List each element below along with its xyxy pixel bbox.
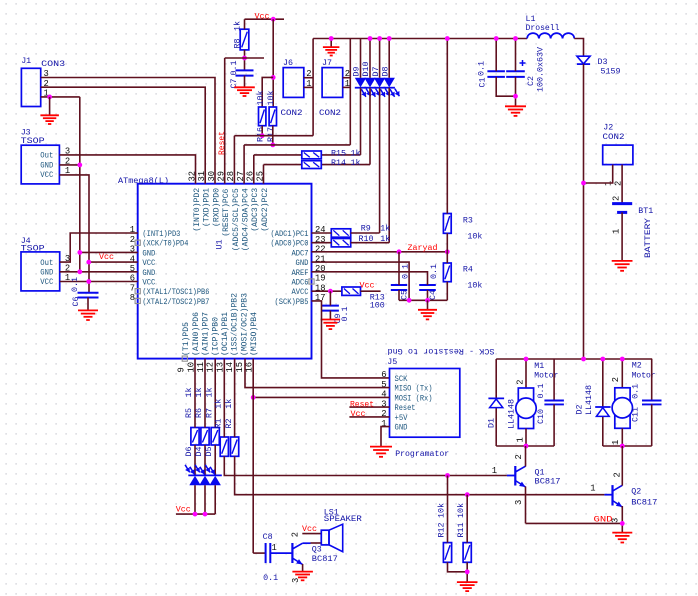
svg-text:0.1: 0.1 bbox=[536, 384, 546, 399]
svg-text:R11: R11 bbox=[456, 523, 466, 538]
wire R9 row: U1 pin24 to D7 column bbox=[312, 232, 332, 234]
resistor R17 body bbox=[269, 107, 276, 126]
svg-text:10k: 10k bbox=[467, 280, 482, 290]
junction bus ground bbox=[329, 36, 334, 41]
svg-text:100.0x63V: 100.0x63V bbox=[536, 46, 546, 92]
capacitor C2 electrolytic bbox=[506, 70, 525, 72]
wire R4 stubs bbox=[446, 252, 448, 263]
svg-text:D2: D2 bbox=[575, 405, 585, 415]
ground symbol BT1 bbox=[612, 261, 633, 271]
junction bus / C2 bbox=[513, 36, 518, 41]
wire D10 top stub bbox=[369, 39, 371, 78]
wire C1 top stem bbox=[495, 39, 497, 72]
wire D3 cathode down to J2 row and motors bbox=[583, 64, 585, 359]
ground symbol top bus bbox=[323, 47, 340, 55]
capacitor C1 bbox=[487, 70, 505, 72]
svg-text:C10: C10 bbox=[536, 409, 546, 424]
svg-text:2: 2 bbox=[516, 380, 526, 385]
svg-text:VCC: VCC bbox=[40, 170, 53, 180]
wire Vcc rail top bbox=[245, 18, 285, 20]
svg-text:D1: D1 bbox=[487, 418, 497, 428]
wire R16 bottom to SCL row bbox=[261, 126, 263, 136]
wire J6 pin stubs bbox=[304, 77, 313, 79]
svg-text:(SCK)PB5: (SCK)PB5 bbox=[275, 297, 309, 307]
wire R3 bottom to Zaryad bbox=[446, 233, 448, 252]
wire U1 pin25 column bbox=[263, 165, 265, 184]
battery BT1 bbox=[612, 202, 632, 205]
junction D4 / Vcc row bbox=[203, 512, 208, 517]
wire R6 to LED bbox=[204, 445, 206, 475]
transistor Q2 BC817 bbox=[611, 485, 613, 505]
svg-text:0.1: 0.1 bbox=[70, 277, 80, 292]
junction supply / D3 rail bbox=[581, 357, 586, 362]
svg-text:AREF: AREF bbox=[292, 268, 309, 278]
wire M1 bottom row bbox=[496, 445, 554, 447]
svg-text:1k: 1k bbox=[194, 388, 204, 398]
wire U1 pin21 GND to analog gnd row bbox=[312, 262, 410, 300]
svg-text:14: 14 bbox=[225, 362, 235, 373]
connector J6 CON2 body bbox=[283, 68, 304, 98]
svg-text:J5: J5 bbox=[387, 357, 397, 367]
resistor R13 body bbox=[342, 287, 361, 295]
svg-text:(XTAL1/TOSC1)PB6: (XTAL1/TOSC1)PB6 bbox=[142, 287, 209, 297]
svg-text:D5: D5 bbox=[204, 447, 214, 457]
svg-text:Out: Out bbox=[40, 151, 53, 161]
svg-text:(MISO)PB4: (MISO)PB4 bbox=[249, 312, 259, 356]
svg-text:(ADC2)PC2: (ADC2)PC2 bbox=[260, 188, 270, 232]
svg-text:5159: 5159 bbox=[601, 67, 621, 77]
connector J5 body bbox=[390, 369, 460, 438]
resistor R9 body bbox=[331, 229, 350, 237]
svg-text:Vcc: Vcc bbox=[99, 252, 114, 262]
svg-text:1: 1 bbox=[272, 543, 277, 553]
svg-text:(RXD)PD0: (RXD)PD0 bbox=[211, 188, 221, 227]
wire R16 top jog bbox=[262, 77, 273, 107]
wire M1 top stub bbox=[525, 359, 527, 388]
wire Q1 collector from M1 bbox=[525, 446, 527, 467]
svg-text:0.1: 0.1 bbox=[229, 61, 239, 76]
wire C8 feed from U1 pin16 column bbox=[253, 552, 265, 554]
resistor R14 body bbox=[302, 161, 322, 169]
svg-text:BC817: BC817 bbox=[312, 554, 338, 564]
C2 plus sign bbox=[520, 62, 526, 64]
resistor R7 body bbox=[211, 428, 219, 446]
wire U1 column to R2 bbox=[234, 359, 236, 437]
wire M1 bottom stub bbox=[525, 429, 527, 447]
op-amp U1 ATmega8(L) IC body bbox=[138, 184, 312, 359]
svg-text:ADC7: ADC7 bbox=[292, 248, 309, 258]
svg-text:J6: J6 bbox=[283, 58, 293, 68]
ground symbol C2 bbox=[505, 106, 526, 116]
svg-text:0.1: 0.1 bbox=[340, 307, 350, 322]
junction J4.1 / VCC rail / U1 pin6 bbox=[86, 279, 91, 284]
junction emitter row / ground bbox=[620, 521, 625, 526]
svg-text:2: 2 bbox=[291, 532, 301, 537]
svg-text:1: 1 bbox=[612, 229, 622, 234]
svg-text:AVCC: AVCC bbox=[292, 287, 309, 297]
junction D3 rail / J2.1 bbox=[581, 181, 586, 186]
svg-text:D4: D4 bbox=[194, 447, 204, 457]
LED cathode bar D6/D4/D5 bbox=[188, 474, 222, 476]
wire C9 top stem bbox=[329, 291, 331, 305]
svg-text:Vcc: Vcc bbox=[302, 524, 317, 534]
wire J4.2 GND to U1 pin5 row bbox=[60, 271, 138, 273]
svg-text:9: 9 bbox=[177, 367, 187, 372]
svg-text:7: 7 bbox=[130, 283, 135, 293]
svg-text:BATTERY: BATTERY bbox=[643, 217, 653, 258]
U1 unconnected pin squares (pins 2,7,8,9,19) bbox=[135, 240, 140, 245]
junction Q1 base / R12 bbox=[445, 473, 450, 478]
svg-text:2: 2 bbox=[514, 454, 524, 459]
svg-text:3: 3 bbox=[514, 500, 524, 505]
connector J7 CON2 body bbox=[322, 68, 343, 98]
wire C1 bottom stem bbox=[496, 77, 515, 96]
wire J1.1 GND stub bbox=[41, 96, 80, 98]
svg-text:1k: 1k bbox=[380, 224, 390, 234]
wire U1 pin26 column bbox=[253, 155, 255, 184]
svg-text:(ADC4/SDA)PC4: (ADC4/SDA)PC4 bbox=[241, 188, 251, 251]
svg-text:CON3: CON3 bbox=[41, 59, 65, 69]
resistor R6 body bbox=[201, 428, 209, 446]
wire R11 bottom stem bbox=[466, 562, 468, 582]
wire MISO row: U1 pin15 to J5.5 bbox=[245, 359, 390, 388]
svg-text:0.1: 0.1 bbox=[477, 61, 487, 76]
svg-text:TSOP: TSOP bbox=[21, 136, 45, 146]
wire Q3 emitter to ground bbox=[302, 564, 304, 572]
svg-text:0.1: 0.1 bbox=[429, 264, 439, 279]
svg-text:M1: M1 bbox=[534, 361, 544, 371]
svg-text:8: 8 bbox=[130, 293, 135, 303]
wire D7 top stub bbox=[379, 39, 381, 78]
wire Q3 collector to speaker pin1 bbox=[303, 542, 311, 544]
wire Reset column to U1 pin29 bbox=[224, 58, 226, 184]
junction bus / D10 bbox=[368, 36, 373, 41]
svg-text:R9: R9 bbox=[361, 224, 371, 234]
wire motor supply row bbox=[496, 358, 652, 360]
svg-text:SPEAKER: SPEAKER bbox=[324, 514, 362, 524]
svg-text:2: 2 bbox=[130, 235, 135, 245]
svg-text:R5: R5 bbox=[184, 408, 194, 418]
svg-text:(AIN0)PD6: (AIN0)PD6 bbox=[191, 312, 201, 356]
wire J1.2 to U1 pin31 (TXD) bbox=[41, 87, 206, 184]
svg-text:(ADC3)PC3: (ADC3)PC3 bbox=[250, 188, 260, 232]
wire R8 top stub bbox=[244, 19, 246, 29]
ground symbol Q3 bbox=[292, 572, 313, 581]
wire J3.2 GND stub to x=79.8 bbox=[59, 164, 79, 166]
wire J4.1 VCC to U1 pin6 row bbox=[60, 281, 138, 283]
svg-text:(MOSI/OC2)PB3: (MOSI/OC2)PB3 bbox=[239, 293, 249, 356]
wire J3.1 VCC stub and vertical x=89 bbox=[59, 175, 89, 292]
svg-text:C11: C11 bbox=[631, 407, 641, 422]
svg-text:Q3: Q3 bbox=[312, 545, 322, 555]
svg-text:CON2: CON2 bbox=[319, 108, 341, 118]
svg-text:10k: 10k bbox=[266, 91, 276, 106]
svg-text:1: 1 bbox=[611, 440, 621, 445]
svg-text:R1: R1 bbox=[214, 419, 224, 429]
svg-text:BC817: BC817 bbox=[535, 477, 561, 487]
junction J3.2 on GND rail bbox=[77, 163, 82, 168]
wire J7 riser from bus down to SDA row bbox=[349, 39, 351, 145]
wire R1 bottom to Q1 base row bbox=[224, 456, 507, 475]
junction R16 / SCL row bbox=[260, 133, 265, 138]
junction R16 top branch bbox=[271, 75, 276, 80]
svg-text:GND: GND bbox=[594, 515, 613, 525]
wire D2 branch bbox=[602, 359, 604, 446]
svg-text:VCC: VCC bbox=[142, 258, 155, 268]
ground symbol J5 bbox=[370, 447, 392, 457]
capacitor C7 bbox=[236, 69, 254, 71]
resistor R1 body bbox=[220, 437, 228, 456]
svg-text:(INT0)PD2: (INT0)PD2 bbox=[192, 188, 202, 232]
svg-text:Zaryad: Zaryad bbox=[408, 243, 438, 253]
resistor R2 body bbox=[231, 437, 239, 456]
capacitor C9 bbox=[322, 305, 339, 307]
wire U1 pin17 SCK down to J5 bbox=[312, 301, 390, 378]
svg-text:1k: 1k bbox=[224, 399, 234, 409]
wire SCL row: U1 pin28 to J6 bbox=[234, 135, 313, 137]
wire M2 bottom row bbox=[603, 445, 652, 447]
svg-text:Programator: Programator bbox=[395, 449, 449, 459]
wire Vcc row under LEDs bbox=[176, 513, 215, 515]
junction supply / D2 bbox=[600, 357, 605, 362]
svg-text:(ADC0)PC0: (ADC0)PC0 bbox=[271, 239, 309, 249]
inductor L1 bbox=[527, 33, 574, 38]
junction supply / M2 bbox=[620, 357, 625, 362]
junction J4.2 / GND rail / U1 pin5 bbox=[77, 269, 82, 274]
svg-text:10k: 10k bbox=[255, 91, 265, 106]
svg-text:(ICP)PB0: (ICP)PB0 bbox=[210, 317, 220, 356]
svg-text:Vcc: Vcc bbox=[255, 12, 270, 22]
capacitor C5 bbox=[391, 284, 407, 286]
svg-text:MOSI (Rx): MOSI (Rx) bbox=[395, 393, 433, 403]
transistor Q1 BC817 bbox=[514, 466, 516, 486]
svg-text:(ADC5/SCL)PC5: (ADC5/SCL)PC5 bbox=[231, 188, 241, 251]
svg-text:GND: GND bbox=[142, 248, 155, 258]
wire R11 top bbox=[466, 495, 468, 543]
svg-text:BC817: BC817 bbox=[631, 498, 657, 508]
wire U1 pin28 column bbox=[233, 136, 235, 184]
wire J2.1 to D3 rail bbox=[584, 165, 613, 183]
svg-text:D3: D3 bbox=[598, 57, 608, 67]
junction R11/R12 ground node bbox=[465, 569, 470, 574]
wire J3.3 Out to U1 pin32 (INT0) bbox=[59, 155, 195, 184]
wire top bus bbox=[313, 38, 527, 40]
junction Zaryad / C5 bbox=[397, 249, 402, 254]
wire Vcc vertical to R16/R17 tops bbox=[272, 19, 274, 107]
wire U1 pin16 column down to C8 bbox=[252, 359, 254, 553]
wire D6 bottom stub bbox=[194, 485, 196, 514]
wire C11 top stem bbox=[651, 359, 653, 400]
ground symbol C4/C5 bbox=[418, 310, 437, 320]
svg-text:1k: 1k bbox=[351, 158, 361, 168]
wire SDA row: U1 pin27 to J7 bbox=[244, 144, 350, 146]
svg-text:R12: R12 bbox=[437, 523, 447, 538]
svg-text:1: 1 bbox=[590, 484, 595, 494]
svg-text:(OC1A)PB1: (OC1A)PB1 bbox=[220, 312, 230, 356]
svg-text:C2: C2 bbox=[526, 76, 536, 86]
svg-text:6: 6 bbox=[381, 370, 386, 380]
svg-text:SCK: SCK bbox=[395, 374, 409, 384]
wire C4 bottom stem bbox=[427, 290, 429, 300]
svg-text:R15: R15 bbox=[331, 148, 346, 158]
wire D7 to R9 row bbox=[379, 88, 381, 233]
junction Q2 base / R11 bbox=[465, 492, 470, 497]
LED D9 bbox=[355, 78, 366, 88]
junction GND rail / U1 pin3 bbox=[77, 250, 82, 255]
wire BT1 negative to ground bbox=[621, 212, 623, 261]
svg-text:(INT1)PD3: (INT1)PD3 bbox=[142, 229, 180, 239]
svg-text:(TXD)PD1: (TXD)PD1 bbox=[202, 188, 212, 227]
resistor R16 body bbox=[259, 107, 266, 126]
junction bus / R3 bbox=[445, 36, 450, 41]
svg-text:0.1: 0.1 bbox=[263, 573, 278, 583]
ground symbol J1 bbox=[40, 115, 59, 124]
junction J1.1 / ground bbox=[47, 95, 52, 100]
connector J4 TSOP body bbox=[21, 252, 60, 291]
svg-text:10k: 10k bbox=[437, 503, 447, 518]
wire R13 right stub bbox=[361, 290, 381, 292]
svg-text:Vcc: Vcc bbox=[176, 504, 191, 514]
svg-text:R2: R2 bbox=[224, 419, 234, 429]
wire Q1 base lead (blue) bbox=[507, 475, 515, 477]
wire MOSI row: U1 pin16 branch to J5.4 bbox=[253, 396, 389, 398]
svg-text:(1SS/OC1B)PB2: (1SS/OC1B)PB2 bbox=[230, 293, 240, 356]
svg-text:SCK - Resistor to Gnd: SCK - Resistor to Gnd bbox=[387, 346, 494, 355]
wire D8 top stub bbox=[388, 39, 390, 78]
wire D9 top stub bbox=[360, 39, 362, 78]
svg-text:R17: R17 bbox=[266, 127, 276, 142]
wire Q2 emitter down to ground node bbox=[621, 506, 623, 533]
svg-text:GND: GND bbox=[40, 160, 53, 170]
wire R15 row: U1 pin26 to D9 bbox=[254, 154, 302, 156]
wire C2 top stem bbox=[515, 39, 517, 72]
svg-text:1k: 1k bbox=[233, 21, 243, 31]
wire R10 row: U1 pin23 to D8 column bbox=[312, 242, 332, 244]
wire C10 bottom stem bbox=[553, 404, 555, 446]
svg-text:1: 1 bbox=[492, 466, 497, 476]
svg-text:R3: R3 bbox=[463, 215, 473, 225]
wire J7 pin stubs bbox=[343, 77, 351, 79]
wire D9 to R15 row bbox=[360, 88, 362, 155]
ground symbol Q1/Q2 emitters bbox=[612, 533, 632, 543]
junction D6 / Vcc row bbox=[193, 512, 198, 517]
wire emitters GND row bbox=[526, 522, 623, 524]
wire L1 right to D3 corner bbox=[574, 39, 583, 57]
svg-text:C4: C4 bbox=[428, 290, 438, 300]
capacitor C4 bbox=[419, 284, 436, 286]
svg-text:2: 2 bbox=[612, 196, 622, 201]
svg-text:0.1: 0.1 bbox=[631, 384, 641, 399]
wire C10 top stem bbox=[553, 359, 555, 400]
svg-text:R8: R8 bbox=[233, 39, 243, 49]
transistor Q3 BC817 bbox=[291, 543, 293, 563]
svg-text:ADC6: ADC6 bbox=[292, 278, 309, 288]
svg-text:10k: 10k bbox=[456, 503, 466, 518]
LED D6 bbox=[189, 476, 200, 485]
svg-text:+5V: +5V bbox=[395, 413, 409, 423]
svg-text:1: 1 bbox=[516, 437, 526, 442]
junction pin16 column / MOSI row bbox=[251, 395, 256, 400]
junction C4 / ground bbox=[425, 298, 430, 303]
svg-text:(XCK/T0)PD4: (XCK/T0)PD4 bbox=[142, 239, 188, 249]
ground symbol C7 bbox=[234, 87, 255, 96]
svg-text:(T1)PD5: (T1)PD5 bbox=[181, 322, 191, 356]
svg-text:J1: J1 bbox=[21, 56, 31, 66]
svg-text:MISO (Tx): MISO (Tx) bbox=[395, 384, 433, 394]
wire R8 bottom / C7 node bbox=[244, 50, 246, 70]
junction bus / D7 bbox=[377, 36, 382, 41]
wire Q1 emitter down bbox=[525, 487, 527, 524]
wire J5.3 Reset stub bbox=[349, 406, 389, 408]
svg-text:Reset: Reset bbox=[350, 399, 374, 409]
junction R8/C7/Reset bbox=[242, 56, 247, 61]
svg-text:2: 2 bbox=[613, 472, 623, 477]
svg-text:CON2: CON2 bbox=[281, 108, 303, 118]
wire U1 column to R6 bbox=[204, 359, 206, 428]
junction bus / C1 bbox=[494, 36, 499, 41]
svg-text:Q2: Q2 bbox=[631, 486, 641, 496]
wire D10 to R14 row bbox=[369, 88, 371, 165]
wire U1 pin18 AVCC row bbox=[312, 290, 343, 292]
wire U1 pin3 GND row bbox=[80, 251, 138, 253]
speaker LS1 bbox=[321, 530, 329, 545]
junction Vcc rail bbox=[271, 17, 276, 22]
wire Reset row to column bbox=[225, 57, 264, 59]
wire R2 bottom to Q2 base row bbox=[235, 456, 605, 494]
svg-text:CON2: CON2 bbox=[603, 132, 625, 142]
svg-text:(AIN1)PD7: (AIN1)PD7 bbox=[201, 312, 211, 356]
connector J1 CON3 body bbox=[21, 68, 40, 106]
svg-text:Reset: Reset bbox=[395, 403, 416, 413]
wire Q2 collector from M2 bbox=[621, 446, 623, 486]
svg-text:GND: GND bbox=[296, 258, 309, 268]
wire C5 bottom stem bbox=[398, 290, 400, 300]
svg-text:C6: C6 bbox=[71, 297, 81, 307]
svg-text:(ADC1)PC1: (ADC1)PC1 bbox=[271, 229, 309, 239]
resistor R11 body bbox=[463, 543, 471, 563]
wire R12 top bbox=[447, 476, 449, 543]
resistor R8 body bbox=[240, 29, 249, 50]
diode D3 bbox=[577, 56, 590, 64]
svg-text:(RESET)PC6: (RESET)PC6 bbox=[221, 189, 231, 237]
svg-text:LL4148: LL4148 bbox=[584, 385, 594, 415]
svg-text:BT1: BT1 bbox=[638, 206, 653, 216]
wire GND vertical x=79.8 (J1.1-J3.2-U1 pins 3,5) bbox=[79, 97, 81, 272]
capacitor C6 bbox=[78, 292, 99, 294]
svg-text:VCC: VCC bbox=[40, 277, 53, 287]
wire U1 column to R5 bbox=[194, 359, 196, 428]
ground symbol C6 bbox=[78, 310, 98, 320]
wire C9 bottom stem bbox=[329, 311, 331, 320]
wire D1 branch bbox=[495, 359, 497, 446]
svg-text:C8: C8 bbox=[263, 532, 273, 542]
wire R5 to LED bbox=[194, 445, 196, 475]
svg-text:1k: 1k bbox=[351, 148, 361, 158]
svg-text:Reset: Reset bbox=[217, 131, 227, 155]
capacitor C8 bbox=[265, 543, 267, 563]
svg-text:ATmega8(L): ATmega8(L) bbox=[118, 176, 169, 186]
wire analog GND row under C5/C4 bbox=[399, 299, 447, 301]
junction R17 / SDA row bbox=[270, 143, 275, 148]
connector J2 CON2 body bbox=[603, 145, 633, 165]
wire C5 top stem from Zaryad bbox=[398, 252, 400, 285]
svg-text:R6: R6 bbox=[194, 408, 204, 418]
LED D8 bbox=[384, 78, 395, 88]
junction supply / M1 bbox=[524, 357, 529, 362]
wire M2 bottom stub bbox=[621, 428, 623, 446]
wire U1 pin4 VCC row bbox=[89, 261, 138, 263]
wire Q2 base lead (blue) bbox=[604, 494, 612, 496]
